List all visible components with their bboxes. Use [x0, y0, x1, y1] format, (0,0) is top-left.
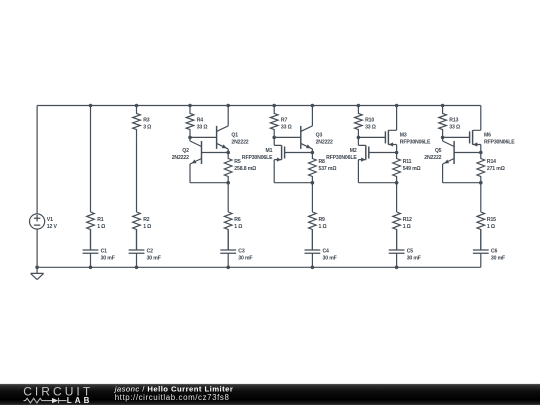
svg-text:33 Ω: 33 Ω [197, 124, 208, 130]
resistor R10 33 ohm [355, 106, 376, 138]
wire R3 to R2 [136, 137, 138, 212]
resistor R9 1ohm [309, 212, 327, 250]
svg-text:M1: M1 [266, 148, 273, 154]
node ground junction [35, 266, 39, 270]
node stage 2 bottom [311, 181, 315, 185]
svg-text:M2: M2 [350, 148, 357, 154]
node top rail R7 column [272, 104, 276, 108]
node top rail R10 column [357, 104, 361, 108]
svg-text:LAB: LAB [67, 396, 93, 405]
svg-text:Q5: Q5 [435, 148, 442, 154]
resistor R11 549 mohm [393, 153, 421, 183]
node top rail Q3 column [311, 104, 315, 108]
svg-text:30 mF: 30 mF [101, 256, 115, 262]
svg-text:R4: R4 [197, 117, 204, 123]
svg-text:1 Ω: 1 Ω [143, 224, 151, 230]
ground [31, 267, 44, 279]
capacitor C4 30mF [305, 230, 337, 268]
svg-text:C4: C4 [323, 249, 330, 255]
wire stage 2 bottom [274, 182, 312, 184]
svg-text:1 Ω: 1 Ω [487, 224, 495, 230]
svg-text:549 mΩ: 549 mΩ [403, 166, 421, 172]
node top rail R13 column [441, 104, 445, 108]
node bottom rail C3 [226, 266, 230, 270]
capacitor C1 30mF [83, 230, 115, 268]
node stage 3 bottom [395, 181, 399, 185]
capacitor C5 30mF [389, 230, 421, 268]
svg-text:33 Ω: 33 Ω [365, 124, 376, 130]
svg-text:33 Ω: 33 Ω [449, 124, 460, 130]
footer bar [0, 384, 540, 405]
svg-text:1 Ω: 1 Ω [319, 224, 327, 230]
resistor R1 1ohm [87, 212, 105, 250]
node top rail M6 column [0, 0, 1, 1]
node A stage 1 [188, 136, 192, 140]
svg-text:R2: R2 [143, 217, 150, 223]
wire column R1 from top rail [90, 106, 92, 213]
svg-text:30 mF: 30 mF [407, 256, 421, 262]
wire stage 4 bottom [443, 182, 481, 184]
resistor R12 1ohm [393, 212, 412, 250]
wire M1 gate to node B [285, 152, 313, 154]
svg-text:30 mF: 30 mF [323, 256, 337, 262]
svg-text:http://circuitlab.com/cz73fs8: http://circuitlab.com/cz73fs8 [115, 393, 230, 402]
MOSFET M2 RFP30N06LE [326, 137, 369, 182]
footer url text [115, 393, 230, 402]
wire node A to M6 gate [443, 136, 470, 138]
node bottom rail C2 [135, 266, 139, 270]
resistor R6 1ohm [224, 212, 242, 250]
transistor Q2 2N2222 [172, 137, 202, 182]
svg-text:R1: R1 [97, 217, 104, 223]
svg-text:R5: R5 [234, 159, 241, 165]
svg-text:M6: M6 [484, 133, 491, 139]
svg-text:R15: R15 [487, 217, 496, 223]
svg-text:Q3: Q3 [316, 133, 323, 139]
svg-text:33 Ω: 33 Ω [281, 124, 292, 130]
wire Q5 to R15 [480, 183, 482, 212]
svg-text:2N2222: 2N2222 [172, 155, 189, 161]
svg-text:2N2222: 2N2222 [424, 155, 441, 161]
node top rail R1 column [89, 104, 93, 108]
svg-text:Q2: Q2 [182, 148, 189, 154]
node B stage 3 [395, 151, 399, 155]
resistor R13 33 ohm [439, 106, 460, 138]
transistor Q1 2N2222 [217, 106, 249, 153]
wire top supply rail [37, 105, 481, 107]
node A stage 2 [272, 136, 276, 140]
resistor R2 1ohm [133, 212, 151, 250]
resistor R4 33 ohm [186, 106, 207, 138]
node A stage 3 [357, 136, 361, 140]
svg-text:M3: M3 [400, 133, 407, 139]
svg-text:2N2222: 2N2222 [316, 140, 333, 146]
node B stage 1 [226, 151, 230, 155]
node bottom rail C1 [89, 266, 93, 270]
node top rail Q1 column [226, 104, 230, 108]
node B stage 4 [479, 151, 483, 155]
MOSFET M1 RFP30N06LE [242, 137, 285, 182]
resistor R3 3ohm [133, 106, 151, 138]
svg-text:R13: R13 [449, 117, 458, 123]
node top rail R4 column [188, 104, 192, 108]
node A stage 4 [441, 136, 445, 140]
svg-text:R8: R8 [319, 159, 326, 165]
wire Q5 base to node B [454, 152, 481, 154]
svg-text:R11: R11 [403, 159, 412, 165]
svg-text:R3: R3 [143, 117, 150, 123]
resistor R8 537 mohm [309, 153, 337, 183]
resistor R7 33 ohm [270, 106, 291, 138]
node stage 4 bottom [479, 181, 483, 185]
svg-text:1 Ω: 1 Ω [403, 224, 411, 230]
node top rail M3 column [395, 104, 399, 108]
footer title text [114, 384, 234, 393]
capacitor C2 30mF [129, 230, 161, 268]
svg-text:R14: R14 [487, 159, 496, 165]
svg-text:RFP30N06LE: RFP30N06LE [326, 155, 357, 161]
svg-text:R9: R9 [319, 217, 326, 223]
svg-text:RFP30N06LE: RFP30N06LE [242, 155, 273, 161]
resistor R5 258.8 mohm [224, 153, 256, 183]
node B stage 2 [311, 151, 315, 155]
capacitor C6 30mF [473, 230, 505, 268]
svg-text:3 Ω: 3 Ω [143, 124, 151, 130]
svg-text:30 mF: 30 mF [238, 256, 252, 262]
svg-text:R12: R12 [403, 217, 412, 223]
svg-text:271 mΩ: 271 mΩ [487, 166, 505, 172]
svg-text:Q1: Q1 [231, 133, 238, 139]
svg-text:537 mΩ: 537 mΩ [319, 166, 337, 172]
wire stage 1 bottom [190, 182, 228, 184]
wire stage 3 bottom [358, 182, 396, 184]
resistor R15 1ohm [477, 212, 496, 250]
svg-text:30 mF: 30 mF [491, 256, 505, 262]
svg-text:RFP30N06LE: RFP30N06LE [484, 140, 515, 146]
node top rail R3 column [135, 104, 139, 108]
svg-text:R6: R6 [234, 217, 241, 223]
wire Q2 base to node B [202, 152, 229, 154]
svg-text:30 mF: 30 mF [147, 256, 161, 262]
svg-text:R7: R7 [281, 117, 288, 123]
svg-text:12 V: 12 V [47, 224, 58, 230]
MOSFET M6 RFP30N06LE [470, 106, 516, 153]
transistor Q3 2N2222 [301, 106, 333, 153]
svg-text:V1: V1 [47, 217, 53, 223]
svg-text:C2: C2 [147, 249, 154, 255]
svg-text:C5: C5 [407, 249, 414, 255]
node bottom rail C4 [311, 266, 315, 270]
svg-text:C3: C3 [238, 249, 245, 255]
voltage source V1 12V [29, 106, 57, 268]
svg-text:258.8 mΩ: 258.8 mΩ [234, 166, 256, 172]
wire bottom ground rail [37, 266, 481, 268]
wire node A to Q3 base [274, 136, 301, 138]
svg-text:1 Ω: 1 Ω [234, 224, 242, 230]
wire M2 to R12 [396, 183, 398, 212]
capacitor C3 30mF [220, 230, 252, 268]
wire M1 to R9 [311, 183, 313, 212]
resistor R14 271 mohm [477, 153, 505, 183]
node stage 1 bottom [226, 181, 230, 185]
wire M2 gate to node B [369, 152, 397, 154]
svg-text:C1: C1 [101, 249, 108, 255]
svg-text:1 Ω: 1 Ω [97, 224, 105, 230]
svg-text:2N2222: 2N2222 [231, 140, 248, 146]
node bottom rail C5 [395, 266, 399, 270]
wire node A to M3 gate [358, 136, 385, 138]
wire node A to Q1 base [190, 136, 217, 138]
transistor Q5 2N2222 [424, 137, 454, 182]
svg-text:R10: R10 [365, 117, 374, 123]
svg-text:RFP30N06LE: RFP30N06LE [400, 140, 431, 146]
wire Q2 to R6 [227, 183, 229, 212]
CircuitLab logo [23, 384, 93, 405]
MOSFET M3 RFP30N06LE [385, 106, 431, 153]
svg-text:C6: C6 [491, 249, 498, 255]
